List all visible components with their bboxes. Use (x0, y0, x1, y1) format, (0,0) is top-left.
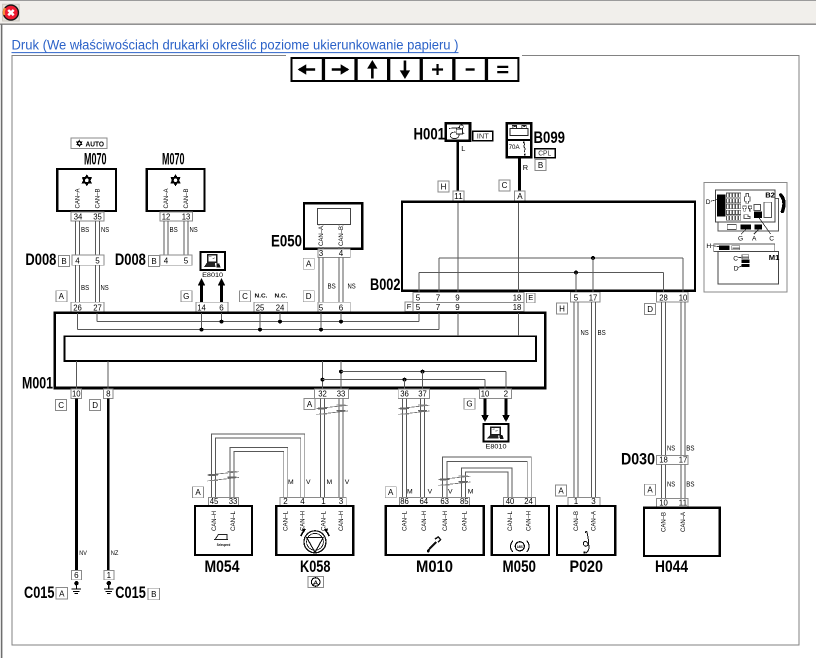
svg-text:18: 18 (513, 303, 522, 312)
M001 stub pin24 (279, 313, 281, 321)
svg-text:NS: NS (190, 225, 198, 234)
body gateway M001 (55, 313, 546, 388)
svg-text:H001: H001 (414, 126, 446, 144)
svg-text:R: R (523, 163, 528, 172)
legend connector A (black) (755, 224, 763, 229)
wire label M (K058 pin2) (288, 479, 294, 486)
M001 stub pin37 (422, 372, 424, 389)
svg-text:V: V (345, 479, 350, 486)
M001 stub pin5 (320, 313, 322, 329)
svg-text:C: C (769, 235, 774, 242)
wire L H001 to B002 pin11 (456, 141, 459, 192)
svg-text:CAN–B: CAN–B (574, 511, 580, 531)
label box INT (473, 131, 493, 141)
wire label V (M010 pin63) (448, 489, 453, 496)
wire M054 pin33 to K058 pin2 (inner) (234, 452, 284, 498)
P020 pin row 1 3 (568, 497, 600, 506)
svg-text:CAN–H: CAN–H (527, 511, 533, 531)
svg-text:CAN–H: CAN–H (443, 511, 449, 531)
M001 stub pinF5 (418, 313, 420, 321)
M001 stub inner unit to pin10 (76, 361, 78, 389)
svg-text:B: B (151, 257, 156, 266)
toolbar button right arrow (324, 58, 355, 81)
svg-text:E8010: E8010 (486, 444, 507, 451)
M001 stub pin14 (201, 313, 203, 329)
M001 stub pin6 (221, 313, 223, 321)
ground at C015 A (72, 581, 82, 594)
svg-text:H: H (706, 243, 711, 250)
svg-text:M010: M010 (416, 558, 453, 576)
M001 connector letter D (bottom) (90, 400, 101, 411)
legend letter H and leader (706, 243, 719, 250)
M054 pin row 45 33 (209, 497, 239, 506)
svg-text:36: 36 (400, 390, 409, 399)
wire BS E050 pin3 to M001 pin5 (319, 258, 323, 303)
svg-text:D: D (706, 199, 711, 206)
svg-text:C: C (58, 401, 64, 410)
legend module M1 top bar (714, 244, 775, 251)
diagnostic tester E8010 icon (left) (200, 252, 225, 270)
svg-text:M070: M070 (162, 150, 185, 168)
M001 connector letter D (303, 291, 314, 302)
legend fuse box B2 body (716, 190, 775, 222)
C015 connector letter B (148, 588, 160, 600)
svg-text:A: A (388, 488, 394, 497)
wire label NS lower (101, 283, 109, 292)
wire label BS lower (81, 283, 89, 292)
steering wheel node K058 box (276, 506, 353, 555)
svg-text:10: 10 (679, 293, 688, 302)
M010 pin row 86 64 63 85 (400, 497, 470, 506)
wire NS E050 pin4 to M001 pin6 (339, 258, 343, 303)
legend label B2 (765, 190, 775, 199)
svg-text:A: A (558, 486, 564, 495)
svg-text:Selespeed: Selespeed (217, 543, 231, 547)
label N.C. pin25 (255, 294, 268, 300)
wire label BS lower (686, 480, 694, 489)
svg-text:NZ: NZ (111, 550, 119, 557)
svg-text:32: 32 (318, 390, 327, 399)
M010 connector letter A (385, 487, 396, 498)
svg-text:C: C (502, 181, 508, 190)
M001 internal bus line 3 (341, 370, 506, 389)
B002 pin box A (515, 191, 526, 201)
svg-text:NV: NV (79, 550, 87, 557)
svg-text:CAN–L: CAN–L (403, 510, 409, 531)
legend connector stack black bars (742, 260, 750, 267)
M001 connector letter A (bottom) (304, 399, 315, 410)
M070-1 pin row 34 35 (71, 212, 104, 222)
junction dot line1 pin24 (278, 320, 282, 324)
svg-text:A: A (195, 488, 201, 497)
svg-text:6: 6 (74, 571, 79, 580)
D008-2 pin row 4 5 (160, 255, 192, 265)
M001 pin row 32 33 (315, 389, 349, 399)
svg-text:4: 4 (339, 249, 344, 258)
svg-text:5: 5 (95, 256, 100, 265)
D030 pin row 18 17 (657, 455, 689, 464)
wire label NZ (111, 550, 119, 557)
svg-text:V: V (428, 489, 433, 496)
legend curved hook mark (781, 195, 784, 212)
svg-text:CAN–A: CAN–A (681, 512, 687, 532)
svg-text:C: C (242, 292, 248, 301)
M001 stub inner unit to pin32 (321, 361, 325, 389)
wire M054 pin45 to K058 pin4 (outer) (211, 434, 304, 498)
svg-text:6: 6 (219, 303, 224, 312)
arrow up M001 pin6 to E8010 (218, 278, 225, 302)
M001 connector letter C (bottom) (56, 400, 67, 411)
legend module M1 body (718, 251, 779, 284)
svg-text:CAN–A: CAN–A (76, 189, 82, 209)
legend bracket small socket (727, 224, 736, 229)
B002 internal bus line 2 (419, 272, 664, 274)
svg-text:D: D (734, 265, 739, 272)
ground connector C015 B label (115, 584, 146, 602)
svg-text:M: M (468, 489, 474, 496)
svg-text:G: G (738, 235, 743, 242)
arrow up M001 pin14 to E8010 (198, 278, 205, 302)
M001 connector letter C (240, 291, 251, 302)
svg-text:10: 10 (659, 499, 668, 508)
B002 pin row D 28 10 (657, 292, 689, 302)
svg-text:5: 5 (416, 303, 421, 312)
B002 connector letter H (lower) (557, 303, 568, 314)
svg-text:35: 35 (93, 212, 102, 221)
legend connector D (black) (717, 195, 725, 217)
wire BS D030 to H044 pin11 (681, 464, 685, 498)
svg-text:B: B (61, 257, 66, 266)
B002 pin box 11 (453, 191, 464, 201)
wire label NS (348, 282, 356, 291)
wire label V (K058 pin3) (345, 479, 350, 486)
fuse box B002 label (370, 276, 401, 294)
wire M M001 pin36 to M010 pin86 (403, 399, 407, 498)
svg-text:14: 14 (197, 303, 206, 312)
svg-text:17: 17 (589, 293, 598, 302)
sound system P020 box (557, 506, 615, 555)
wire label BS (81, 225, 89, 234)
junction dot B002 line2 (574, 271, 578, 275)
wire BS B002 D10 to D030 (681, 302, 685, 455)
B002 pin row E 5 7 9 18 (413, 293, 524, 303)
wire label NS lower (667, 480, 675, 489)
svg-text:M050: M050 (503, 558, 537, 576)
arrow down M001 pin10 to E8010 (481, 399, 488, 423)
legend leader and letter D (706, 199, 717, 206)
K058 steering badge (308, 577, 323, 588)
svg-text:28: 28 (659, 293, 668, 302)
wire label NS (581, 328, 589, 337)
svg-text:CAN–L: CAN–L (231, 510, 237, 531)
svg-text:2: 2 (504, 390, 509, 399)
legend fuse grid (727, 193, 741, 220)
svg-text:NS: NS (667, 480, 675, 489)
H044 connector letter A (645, 484, 656, 495)
svg-text:25: 25 (256, 303, 265, 312)
svg-text:BS: BS (328, 282, 336, 291)
toolbar button plus (422, 58, 453, 81)
battery B099 label (534, 129, 566, 147)
wire M010 pin63 to M050 pin24 (inner) (447, 462, 527, 498)
svg-text:B002: B002 (370, 276, 401, 294)
K058 label (300, 558, 331, 576)
M001 stub pin6D (340, 313, 342, 321)
D008-1 connector letter B (59, 255, 70, 266)
svg-text:CAN–H: CAN–H (339, 511, 345, 531)
svg-text:34: 34 (74, 212, 83, 221)
svg-text:CAN–A: CAN–A (164, 189, 170, 209)
svg-text:CAN–H: CAN–H (422, 511, 428, 531)
legend fuse box B2 rear outline (718, 199, 778, 231)
svg-text:M: M (288, 479, 294, 486)
junction dot line2 pin25 (258, 328, 262, 332)
svg-text:CAN–A: CAN–A (592, 511, 598, 531)
B002 stub pin D10 (682, 258, 684, 292)
svg-text:D: D (92, 401, 98, 410)
svg-text:5: 5 (319, 303, 324, 312)
svg-text:CAN–B: CAN–B (662, 512, 668, 532)
connector D008 (instance 2) label (115, 251, 146, 269)
wire label R (523, 163, 528, 172)
svg-text:H: H (441, 182, 447, 191)
svg-text:AUTO: AUTO (86, 140, 105, 149)
close button (3, 4, 20, 21)
svg-text:CAN–L: CAN–L (508, 510, 514, 531)
svg-text:NS: NS (101, 225, 109, 234)
wire NS M070-1 pin35 to D008 (96, 221, 100, 255)
horn H001 box (446, 123, 470, 140)
svg-text:A: A (306, 260, 312, 269)
wire M010 pin63 to M050 pin24 (outer) (442, 457, 531, 498)
M001 pin row 10 2 (479, 389, 511, 399)
wire BS B002 H17 to P020 pin3 (592, 302, 596, 497)
svg-text:ABS: ABS (517, 545, 524, 549)
svg-text:B: B (151, 590, 156, 599)
svg-text:8: 8 (106, 390, 111, 399)
wire label BS (686, 444, 694, 453)
svg-text:CAN–L: CAN–L (322, 510, 328, 531)
svg-text:CPL: CPL (538, 149, 551, 158)
connector D030 label (621, 451, 655, 469)
E8010 right label (486, 444, 507, 451)
wire label BS (328, 282, 336, 291)
B002 wire pinA to E18 (518, 203, 520, 293)
svg-text:1: 1 (107, 571, 112, 580)
M054 connector letter A (193, 487, 204, 498)
svg-text:5: 5 (574, 293, 579, 302)
battery B099 box with fuse 70A (507, 123, 531, 157)
P020 label (570, 558, 604, 576)
B002 stub pin E5 (418, 273, 420, 293)
svg-text:B2: B2 (765, 190, 775, 199)
wire label V (K058 pin4) (306, 479, 311, 486)
svg-text:CAN–H: CAN–H (212, 511, 218, 531)
svg-text:BS: BS (81, 283, 89, 292)
D008-2 connector letter B (149, 255, 160, 266)
svg-text:CAN–B: CAN–B (96, 189, 102, 209)
svg-text:M: M (327, 479, 333, 486)
M001 pin row 14 6 (196, 302, 228, 312)
twisted pair mark M010/M050 (438, 476, 470, 486)
wire label BS (170, 225, 178, 234)
E050 connector letter A (303, 258, 314, 269)
legend connector H (black) (719, 245, 730, 250)
svg-text:E8010: E8010 (202, 272, 223, 279)
svg-text:9: 9 (455, 293, 460, 302)
M001 inner unit rectangle (65, 336, 536, 361)
module M070 (instance 1) box (57, 169, 116, 211)
P020 connector letter A (556, 485, 567, 496)
M001 stub pin36 (404, 380, 406, 389)
svg-text:INT: INT (477, 132, 490, 141)
svg-text:NS: NS (667, 444, 675, 453)
svg-text:N.C.: N.C. (255, 294, 268, 300)
fuse box B002 (402, 202, 695, 291)
legend label M1 (769, 253, 780, 262)
svg-text:C: C (733, 255, 738, 262)
wire NV M001 pin10 to C015 (75, 399, 78, 571)
wire NS B002 H5 to P020 pin1 (574, 302, 578, 497)
svg-text:H: H (559, 304, 565, 313)
wire M054 pin45 to K058 pin4 (inner) (215, 438, 300, 498)
svg-text:A: A (59, 590, 65, 599)
M001 stub pin26 (77, 313, 79, 329)
wire label L (461, 144, 465, 153)
svg-text:H044: H044 (655, 558, 689, 576)
svg-text:10: 10 (72, 390, 81, 399)
body computer E050 label (271, 233, 302, 251)
wire label BS (598, 328, 606, 337)
brake control M050 box (492, 506, 549, 555)
svg-text:F: F (407, 302, 412, 311)
svg-text:17: 17 (679, 456, 688, 465)
label box CPL (535, 149, 556, 158)
module M070 (instance 1) label (84, 150, 107, 168)
svg-text:N.C.: N.C. (275, 294, 288, 300)
C015 pin box 6 (71, 571, 81, 580)
M010 label (416, 558, 453, 576)
svg-text:V: V (448, 489, 453, 496)
B002 connector letter C (499, 180, 510, 191)
M001 pin row 25 24 (254, 302, 288, 312)
svg-text:CAN–B: CAN–B (184, 189, 190, 209)
instrument panel H044 box (644, 508, 720, 556)
toolbar button equals (487, 58, 518, 81)
M001 pin row F 5 7 9 18 (413, 302, 524, 311)
svg-text:CAN–H: CAN–H (301, 511, 307, 531)
svg-text:4: 4 (164, 256, 169, 265)
svg-text:10: 10 (481, 390, 490, 399)
wire label NS (101, 225, 109, 234)
svg-text:11: 11 (679, 499, 688, 508)
legend striped connector mid (742, 255, 749, 259)
svg-text:CAN–L: CAN–L (284, 510, 290, 531)
M001 pin box 8 (104, 389, 114, 399)
wire M054 pin33 to K058 pin2 (outer) (230, 448, 288, 498)
horn H001 label (414, 126, 446, 144)
svg-text:A: A (752, 235, 757, 242)
label N.C. pin24 (275, 294, 288, 300)
svg-text:4: 4 (75, 256, 80, 265)
toolbar button left arrow (292, 58, 323, 81)
junction dot line2 pin5 (319, 328, 323, 332)
M001 stub pin25 (259, 313, 261, 329)
toolbar button minus (455, 58, 486, 81)
gearbox module M054 box (195, 506, 252, 555)
svg-text:BS: BS (170, 225, 178, 234)
B002 connector letter H (438, 181, 449, 192)
wire R B099 to B002 pinA (518, 157, 521, 191)
svg-text:CAN–A: CAN–A (319, 226, 325, 246)
svg-text:C015: C015 (24, 584, 55, 602)
svg-text:D: D (306, 292, 312, 301)
M001 internal bus line 4 (323, 378, 485, 389)
B099 connector letter B (535, 160, 546, 171)
B002 connector letter E (527, 293, 536, 303)
badge AUTO (71, 138, 107, 149)
legend leaders G A C (741, 218, 771, 234)
M050 pin row 40 24 (504, 497, 536, 506)
legend panel frame (704, 182, 787, 292)
wire BS M070-2 pin12 to D008 (164, 221, 168, 255)
svg-text:37: 37 (418, 390, 427, 399)
engine control M010 box (386, 506, 484, 555)
M001 stub pinF7 (438, 313, 440, 329)
legend striped connector top (732, 246, 740, 250)
M001 connector letter F (405, 302, 413, 312)
svg-text:CAN–L: CAN–L (462, 510, 468, 531)
B002 stub pin H17 (592, 258, 594, 292)
legend letter C (769, 235, 774, 242)
B002 pin row H 5 17 (571, 292, 601, 302)
legend letter G (738, 235, 743, 242)
M001 connector letter G (bottom) (464, 398, 475, 409)
wire label NV (79, 550, 87, 557)
svg-text:G: G (183, 292, 189, 301)
svg-text:7: 7 (436, 303, 441, 312)
legend small socket outline (754, 205, 761, 211)
twisted pair mark 36/37 (399, 405, 430, 415)
svg-text:33: 33 (337, 390, 346, 399)
svg-text:12: 12 (162, 212, 171, 221)
wire label M (M010 pin86) (407, 489, 413, 496)
toolbar button down arrow (389, 58, 420, 81)
H044 label (655, 558, 689, 576)
M001 connector letter A (56, 291, 67, 302)
svg-text:27: 27 (93, 303, 102, 312)
wire BS M070-1 pin34 to D008 (76, 221, 80, 255)
C015 pin box 1 (104, 571, 114, 580)
M001 internal bus line 2 (78, 329, 440, 331)
svg-text:V: V (306, 479, 311, 486)
module M070 (instance 2) box (147, 169, 205, 211)
B002 internal bus line 1 (439, 257, 683, 259)
svg-text:E: E (528, 293, 533, 302)
wire NS M070-2 pin13 to D008 (184, 221, 188, 255)
M001 stub inner unit to pin33 (339, 361, 343, 389)
M001 connector letter G (181, 291, 192, 302)
window left border (1, 25, 3, 658)
print link (12, 38, 459, 53)
svg-text:NS: NS (581, 328, 589, 337)
svg-text:A: A (307, 400, 313, 409)
svg-text:13: 13 (182, 212, 191, 221)
wire M010 pin85 to M050 pin40 (outer) (461, 468, 512, 498)
svg-text:CAN–B: CAN–B (339, 226, 345, 246)
legend tall socket outline (764, 202, 772, 217)
M001 stub inner unit to pin8 (107, 361, 109, 389)
